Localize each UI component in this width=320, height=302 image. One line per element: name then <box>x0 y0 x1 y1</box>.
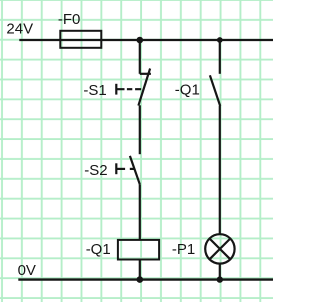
svg-text:0V: 0V <box>18 262 36 279</box>
svg-text:-Q1: -Q1 <box>86 241 111 258</box>
junction node: bottom rail / lamp branch <box>217 276 223 282</box>
wire: coil Q1 to bottom rail <box>139 259 141 279</box>
lamp P1 <box>205 234 234 263</box>
svg-text:-F0: -F0 <box>58 11 81 28</box>
wire: S2 to coil Q1 <box>139 184 141 240</box>
wire: 24V top rail <box>19 39 273 41</box>
relay contact Q1 NO <box>210 75 220 106</box>
relay coil Q1 <box>118 240 159 260</box>
actuator link of S1 (dashed with button bar) <box>116 84 141 95</box>
junction node: top rail / Q1 branch <box>217 37 223 43</box>
wire: top rail to S1 contact <box>139 40 141 74</box>
wire: top rail to Q1 contact <box>219 40 221 74</box>
actuator link of S2 (with button bar) <box>116 163 134 174</box>
svg-text:-P1: -P1 <box>172 241 195 258</box>
fuse F0 <box>60 31 101 48</box>
junction node: top rail / S1 branch <box>137 37 144 44</box>
wire: S1 to S2 <box>139 105 141 154</box>
wire: lamp P1 to bottom rail <box>219 264 221 280</box>
pushbutton S2 NO contact <box>130 156 140 184</box>
wire: Q1 contact to lamp P1 <box>219 106 221 235</box>
svg-text:-Q1: -Q1 <box>175 82 200 99</box>
svg-text:-S1: -S1 <box>83 82 106 99</box>
junction node: bottom rail / coil branch <box>137 276 144 283</box>
wire: 0V bottom rail <box>18 278 273 280</box>
svg-text:-S2: -S2 <box>84 162 107 179</box>
svg-text:24V: 24V <box>6 20 33 37</box>
pushbutton S1 NC contact <box>138 69 151 106</box>
